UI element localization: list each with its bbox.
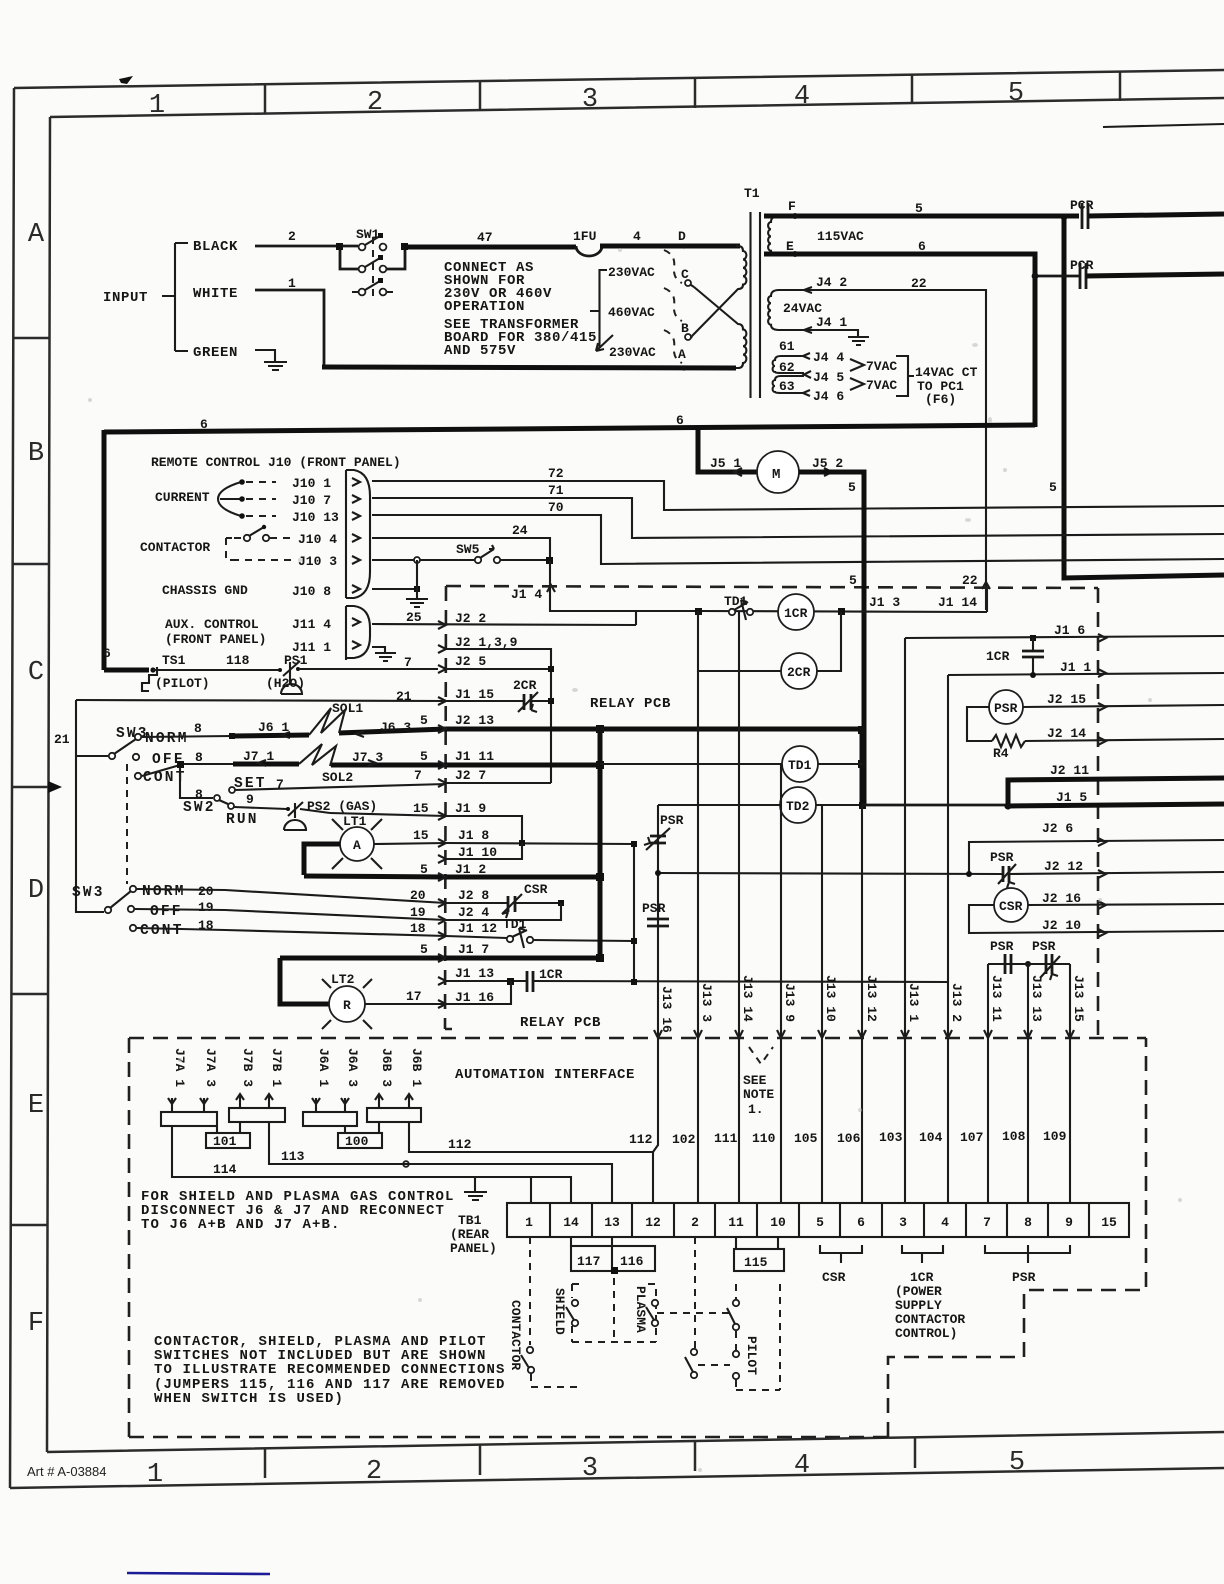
stray frame line top right bbox=[1103, 124, 1224, 127]
wire 5 115VAC F (heavy) bbox=[764, 214, 1079, 219]
svg-text:INPUT: INPUT bbox=[103, 290, 148, 306]
jumper 100 box bbox=[338, 1133, 382, 1148]
svg-text:J2 11: J2 11 bbox=[1050, 763, 1089, 778]
svg-text:CSR: CSR bbox=[524, 882, 548, 897]
svg-text:230VAC: 230VAC bbox=[609, 345, 656, 360]
svg-text:15: 15 bbox=[413, 801, 429, 816]
wire 7 PS1 to J2 5 bbox=[300, 668, 438, 670]
svg-text:4: 4 bbox=[794, 82, 810, 112]
switch PILOT upper bbox=[733, 1300, 739, 1306]
pilot dashed drop from terminal 2 bbox=[694, 1237, 696, 1348]
svg-text:5: 5 bbox=[848, 480, 856, 495]
svg-text:J1 14: J1 14 bbox=[938, 595, 977, 610]
svg-text:7: 7 bbox=[404, 655, 412, 670]
bottom band tick 1-2 bbox=[264, 1449, 267, 1478]
chassis vertical bbox=[416, 560, 418, 598]
wire 112 bbox=[409, 1122, 653, 1203]
svg-text:J7B 3: J7B 3 bbox=[240, 1048, 255, 1087]
current selector arc bbox=[218, 482, 241, 516]
wire 72 (J10 1) bbox=[372, 481, 1224, 510]
svg-text:18: 18 bbox=[410, 921, 426, 936]
svg-text:PLASMA: PLASMA bbox=[633, 1286, 648, 1333]
svg-text:62: 62 bbox=[779, 360, 795, 375]
wire J1 11 row extension to TD1 bbox=[600, 763, 783, 765]
svg-text:F: F bbox=[28, 1309, 44, 1339]
top band tick 5-6 bbox=[1119, 72, 1122, 101]
arrow J4 2 bbox=[804, 287, 812, 293]
column J13 16 bbox=[657, 805, 659, 1037]
wire 71 (J10 7) bbox=[372, 498, 1224, 538]
chevron 7VAC lower bbox=[850, 378, 864, 390]
svg-text:70: 70 bbox=[548, 500, 564, 515]
ground symbol (J4 1) bbox=[848, 337, 869, 345]
svg-text:2: 2 bbox=[691, 1215, 699, 1230]
svg-text:J2 12: J2 12 bbox=[1044, 859, 1083, 874]
secondary 7VAC coil bbox=[773, 356, 804, 393]
svg-text:21: 21 bbox=[54, 732, 70, 747]
svg-text:7: 7 bbox=[414, 768, 422, 783]
svg-text:7VAC: 7VAC bbox=[866, 378, 897, 393]
svg-text:CHASSIS GND: CHASSIS GND bbox=[162, 583, 248, 598]
svg-text:TD1: TD1 bbox=[788, 758, 812, 773]
svg-text:J6B 3: J6B 3 bbox=[379, 1048, 394, 1087]
wire 47 SW1 to fuse bbox=[405, 245, 576, 250]
contactor switch dashed box bbox=[226, 538, 232, 560]
svg-text:J4 1: J4 1 bbox=[816, 315, 847, 330]
svg-text:460VAC: 460VAC bbox=[608, 305, 655, 320]
svg-text:(H2O): (H2O) bbox=[266, 676, 305, 691]
dashed tap braces bbox=[664, 250, 682, 363]
svg-text:6: 6 bbox=[857, 1215, 865, 1230]
svg-text:J1 5: J1 5 bbox=[1056, 790, 1087, 805]
top band tick 2-3 bbox=[479, 82, 482, 111]
svg-text:C: C bbox=[28, 658, 44, 688]
see note dashed V bbox=[749, 1047, 773, 1064]
terminal strip TB1 bbox=[507, 1203, 1129, 1237]
svg-text:J2 15: J2 15 bbox=[1047, 692, 1086, 707]
wire 17 LT2 to J1 16 bbox=[365, 1003, 446, 1005]
svg-text:OPERATION: OPERATION bbox=[444, 299, 525, 315]
svg-text:71: 71 bbox=[548, 483, 564, 498]
svg-text:F: F bbox=[788, 199, 796, 214]
svg-text:PSR: PSR bbox=[660, 813, 684, 828]
svg-text:RELAY PCB: RELAY PCB bbox=[590, 696, 671, 712]
connector J11 shell bbox=[346, 606, 370, 660]
junction chassis bbox=[414, 557, 420, 563]
vertical x634 net bbox=[633, 844, 635, 982]
svg-text:110: 110 bbox=[752, 1131, 776, 1146]
wire J10 3 to SW5 bbox=[372, 559, 474, 561]
svg-text:J1 10: J1 10 bbox=[458, 845, 497, 860]
svg-text:J4 4: J4 4 bbox=[813, 350, 844, 365]
J2 2 riser to 24 row bbox=[635, 611, 637, 625]
svg-text:114: 114 bbox=[213, 1162, 237, 1177]
svg-text:J6 1: J6 1 bbox=[258, 720, 289, 735]
svg-text:7VAC: 7VAC bbox=[866, 359, 897, 374]
svg-text:TO ILLUSTRATE RECOMMENDED CONN: TO ILLUSTRATE RECOMMENDED CONNECTIONS bbox=[154, 1362, 506, 1378]
svg-text:PILOT: PILOT bbox=[744, 1336, 759, 1375]
svg-text:5: 5 bbox=[420, 749, 428, 764]
fuse 1FU bbox=[576, 246, 602, 256]
svg-text:5: 5 bbox=[1008, 79, 1024, 109]
svg-text:AUTOMATION INTERFACE: AUTOMATION INTERFACE bbox=[455, 1067, 635, 1083]
svg-text:2CR: 2CR bbox=[787, 665, 811, 680]
svg-text:J4 6: J4 6 bbox=[813, 389, 844, 404]
svg-text:115: 115 bbox=[744, 1255, 768, 1270]
svg-text:J13 3: J13 3 bbox=[699, 983, 714, 1022]
psr pair bus bbox=[988, 963, 1070, 965]
svg-text:SW2: SW2 bbox=[183, 800, 216, 816]
svg-text:J2 1,3,9: J2 1,3,9 bbox=[455, 635, 518, 650]
wire J4 2 / 22 bbox=[788, 290, 986, 610]
bottom band tick 3-4 bbox=[694, 1442, 697, 1471]
connector J7B box bbox=[229, 1108, 285, 1122]
jumper 115 box bbox=[734, 1249, 784, 1271]
vertical 2CR drop x698 bbox=[698, 611, 781, 671]
switch SW1 pole 2 bbox=[359, 266, 366, 273]
svg-text:108: 108 bbox=[1002, 1129, 1026, 1144]
svg-text:REMOTE CONTROL J10 (FRONT PANE: REMOTE CONTROL J10 (FRONT PANEL) bbox=[151, 455, 401, 470]
svg-text:J4 2: J4 2 bbox=[816, 275, 847, 290]
wire J1 4 entry vertical bbox=[549, 561, 551, 612]
svg-text:J1 12: J1 12 bbox=[458, 921, 497, 936]
blue underline mark at page bottom bbox=[127, 1573, 270, 1574]
jumper 117/116 box bbox=[571, 1246, 655, 1271]
svg-text:J10 8: J10 8 bbox=[292, 584, 331, 599]
svg-text:112: 112 bbox=[629, 1132, 653, 1147]
svg-text:J10 4: J10 4 bbox=[298, 532, 337, 547]
svg-text:SOL1: SOL1 bbox=[332, 701, 363, 716]
svg-text:24VAC: 24VAC bbox=[783, 301, 822, 316]
bracket 1CR under 3-4 bbox=[902, 1245, 943, 1263]
svg-text:J7A 3: J7A 3 bbox=[203, 1048, 218, 1087]
TD2 right wire bbox=[816, 804, 862, 806]
svg-text:4: 4 bbox=[941, 1215, 949, 1230]
svg-text:(PILOT): (PILOT) bbox=[155, 676, 210, 691]
ground to terminal 1 bbox=[475, 1177, 531, 1203]
svg-text:SW3: SW3 bbox=[116, 726, 149, 742]
ground symbol (J11 1) bbox=[375, 653, 396, 661]
svg-text:J10 13: J10 13 bbox=[292, 510, 339, 525]
svg-text:12: 12 bbox=[645, 1215, 661, 1230]
svg-text:A: A bbox=[28, 220, 45, 250]
svg-text:J1 13: J1 13 bbox=[455, 966, 494, 981]
arrow into J1 4 bbox=[547, 585, 555, 592]
svg-text:6: 6 bbox=[676, 413, 684, 428]
svg-text:J13 11: J13 11 bbox=[989, 975, 1004, 1022]
svg-text:J7 3: J7 3 bbox=[352, 750, 383, 765]
column J13 9 bbox=[780, 764, 782, 1037]
wire SW5 to junction bbox=[500, 559, 550, 561]
svg-text:J2 2: J2 2 bbox=[455, 611, 486, 626]
svg-text:(FRONT PANEL): (FRONT PANEL) bbox=[165, 632, 266, 647]
svg-text:6: 6 bbox=[918, 239, 926, 254]
svg-text:9: 9 bbox=[1065, 1215, 1073, 1230]
svg-text:8: 8 bbox=[195, 750, 203, 765]
svg-text:J13 9: J13 9 bbox=[782, 983, 797, 1022]
svg-text:WHEN SWITCH IS USED): WHEN SWITCH IS USED) bbox=[154, 1391, 344, 1407]
svg-text:(F6): (F6) bbox=[925, 392, 956, 407]
svg-text:J1 3: J1 3 bbox=[869, 595, 900, 610]
svg-text:J2 4: J2 4 bbox=[458, 905, 489, 920]
secondary 115VAC coil bbox=[768, 216, 796, 255]
motor M bbox=[757, 451, 799, 493]
svg-text:J13 16: J13 16 bbox=[659, 986, 674, 1033]
svg-text:111: 111 bbox=[714, 1131, 738, 1146]
svg-text:CONTACTOR: CONTACTOR bbox=[895, 1312, 965, 1327]
relay coil TD2 bbox=[780, 787, 816, 823]
svg-text:CONTACTOR: CONTACTOR bbox=[140, 540, 210, 555]
column J13 3 bbox=[697, 671, 699, 1037]
connector J6B box bbox=[367, 1108, 421, 1122]
svg-text:3: 3 bbox=[899, 1215, 907, 1230]
svg-text:PSR: PSR bbox=[1032, 939, 1056, 954]
svg-text:TO J6 A+B AND J7 A+B.: TO J6 A+B AND J7 A+B. bbox=[141, 1217, 341, 1233]
svg-text:14VAC CT: 14VAC CT bbox=[915, 365, 978, 380]
chevron 7VAC upper bbox=[850, 359, 864, 371]
heavy J1 7 row right of boundary bbox=[446, 956, 600, 961]
svg-text:AND 575V: AND 575V bbox=[444, 343, 516, 359]
plasma link dashes bbox=[657, 1312, 730, 1314]
svg-text:LT2: LT2 bbox=[331, 972, 355, 987]
svg-text:RUN: RUN bbox=[226, 812, 259, 828]
wire 1 heavy run to transformer A bbox=[322, 367, 736, 368]
svg-text:J6A 3: J6A 3 bbox=[345, 1048, 360, 1087]
contact PSR right leg bbox=[1046, 954, 1052, 974]
svg-text:1CR: 1CR bbox=[539, 967, 563, 982]
left band tick C-D (none) tick D-E bbox=[12, 993, 49, 996]
CSR loop to J2 10 bbox=[969, 905, 1224, 933]
svg-text:SEE: SEE bbox=[743, 1073, 767, 1088]
wire 4 fuse to T1 primary D bbox=[600, 244, 740, 249]
svg-text:118: 118 bbox=[226, 653, 250, 668]
bracket PSR under 7-9 bbox=[985, 1245, 1070, 1263]
wire J10 8 chassis gnd bbox=[372, 588, 417, 590]
svg-text:6: 6 bbox=[103, 646, 111, 661]
svg-text:103: 103 bbox=[879, 1130, 903, 1145]
svg-text:107: 107 bbox=[960, 1130, 983, 1145]
svg-text:J6 3: J6 3 bbox=[380, 720, 411, 735]
svg-text:J2 10: J2 10 bbox=[1042, 918, 1081, 933]
svg-text:101: 101 bbox=[213, 1134, 237, 1149]
wire 24 inside pcb to 2CR drop bbox=[550, 610, 698, 612]
column J13 1 bbox=[904, 638, 906, 1037]
svg-text:1CR: 1CR bbox=[910, 1270, 934, 1285]
svg-text:SUPPLY: SUPPLY bbox=[895, 1298, 942, 1313]
svg-text:J2 13: J2 13 bbox=[455, 713, 494, 728]
svg-text:8: 8 bbox=[1024, 1215, 1032, 1230]
svg-text:(POWER: (POWER bbox=[895, 1284, 942, 1299]
contactor dashes to J10 3 bbox=[232, 559, 296, 561]
shield/plasma dashed boxes bbox=[572, 1278, 656, 1342]
switch CONTACTOR bbox=[527, 1347, 533, 1353]
relay pcb left dashed bbox=[445, 586, 452, 1029]
connector J6A box bbox=[303, 1112, 357, 1126]
svg-text:5: 5 bbox=[420, 942, 428, 957]
svg-text:24: 24 bbox=[512, 523, 528, 538]
svg-text:CONTACTOR: CONTACTOR bbox=[508, 1300, 523, 1370]
tap bracket bbox=[590, 270, 607, 348]
TD2 left wire to J13 16 column bbox=[658, 804, 780, 806]
terminal feed wires bbox=[653, 1038, 1070, 1203]
bottom band tick 2-3 bbox=[479, 1445, 482, 1475]
heavy link LT2 to J1 7 bbox=[280, 958, 329, 1004]
svg-text:PCR: PCR bbox=[1070, 258, 1094, 273]
svg-text:1CR: 1CR bbox=[784, 606, 808, 621]
left band tick A-B bbox=[13, 337, 50, 340]
svg-text:PSR: PSR bbox=[990, 939, 1014, 954]
wire 114 bbox=[172, 1126, 571, 1203]
svg-text:J13 2: J13 2 bbox=[949, 983, 964, 1022]
svg-text:4: 4 bbox=[633, 229, 641, 244]
svg-text:5: 5 bbox=[420, 713, 428, 728]
PSR loop to R4 bbox=[967, 707, 992, 741]
row J2 2: wire 25 bbox=[372, 624, 636, 625]
relay coil PSR bbox=[989, 690, 1023, 724]
svg-text:20: 20 bbox=[198, 884, 214, 899]
bracket 14VAC bbox=[896, 356, 914, 396]
svg-text:13: 13 bbox=[604, 1215, 620, 1230]
current dots and dashes J10 13 bbox=[239, 513, 245, 519]
ground symbol (input green) bbox=[264, 362, 287, 370]
relay coil 2CR bbox=[781, 653, 817, 689]
svg-text:5: 5 bbox=[1049, 480, 1057, 495]
svg-text:100: 100 bbox=[345, 1134, 369, 1149]
relay pcb top dashed bbox=[446, 586, 1098, 588]
svg-text:22: 22 bbox=[911, 276, 927, 291]
svg-text:5: 5 bbox=[915, 201, 923, 216]
svg-text:E: E bbox=[28, 1091, 44, 1121]
svg-text:2: 2 bbox=[366, 1457, 382, 1487]
svg-text:PSR: PSR bbox=[990, 850, 1014, 865]
left band tick E-F bbox=[11, 1224, 48, 1227]
svg-text:J7A 1: J7A 1 bbox=[172, 1048, 187, 1087]
ground symbol (chassis) bbox=[406, 599, 428, 607]
heavy TD bus x862 bbox=[860, 729, 865, 806]
relay coil 1CR bbox=[778, 594, 814, 630]
connector J7A box bbox=[161, 1112, 217, 1126]
top band tick 4-5 bbox=[911, 75, 914, 104]
svg-text:18: 18 bbox=[198, 918, 214, 933]
svg-text:J2 14: J2 14 bbox=[1047, 726, 1086, 741]
svg-text:4: 4 bbox=[794, 1451, 810, 1481]
secondary 24VAC coil bbox=[768, 290, 790, 330]
relay coil TD1 bbox=[782, 746, 818, 782]
svg-text:B: B bbox=[28, 439, 44, 469]
jumper 101 box bbox=[206, 1133, 250, 1148]
svg-text:AUX. CONTROL: AUX. CONTROL bbox=[165, 617, 259, 632]
svg-text:J1 6: J1 6 bbox=[1054, 623, 1085, 638]
svg-text:SW5: SW5 bbox=[456, 542, 480, 557]
svg-text:A: A bbox=[353, 838, 361, 853]
svg-text:J6A 1: J6A 1 bbox=[316, 1048, 331, 1087]
automation box top dashed bbox=[129, 1037, 1146, 1040]
junction at SW1 left bbox=[336, 243, 343, 250]
svg-text:T1: T1 bbox=[744, 186, 760, 201]
svg-text:61: 61 bbox=[779, 339, 795, 354]
svg-text:6: 6 bbox=[200, 417, 208, 432]
svg-text:NOTE: NOTE bbox=[743, 1087, 774, 1102]
heavy link LT1 to J1 2 bbox=[304, 844, 340, 875]
svg-text:PSR: PSR bbox=[642, 901, 666, 916]
wire J4 1 bbox=[788, 330, 858, 336]
svg-text:SW3: SW3 bbox=[72, 885, 105, 901]
wire 113 bbox=[269, 1122, 612, 1203]
svg-text:(REAR: (REAR bbox=[450, 1227, 489, 1242]
junction J2 12 takeoff bbox=[655, 870, 661, 876]
svg-text:J1 7: J1 7 bbox=[458, 942, 489, 957]
switch SW1 pole 3 (spare) bbox=[359, 289, 366, 296]
svg-text:47: 47 bbox=[477, 230, 493, 245]
junction at SW1 right bbox=[401, 243, 408, 250]
svg-text:J6B 1: J6B 1 bbox=[409, 1048, 424, 1087]
svg-text:1: 1 bbox=[525, 1215, 533, 1230]
junction 2CR riser bbox=[838, 608, 845, 615]
svg-text:5: 5 bbox=[849, 573, 857, 588]
svg-text:GREEN: GREEN bbox=[193, 345, 238, 361]
svg-text:SW1: SW1 bbox=[356, 227, 380, 242]
wire GREEN stub bbox=[255, 350, 275, 362]
svg-text:J13 15: J13 15 bbox=[1071, 975, 1086, 1022]
svg-text:NORM: NORM bbox=[145, 731, 189, 747]
svg-text:106: 106 bbox=[837, 1131, 861, 1146]
contactor switch contacts bbox=[244, 535, 250, 541]
svg-text:TS1: TS1 bbox=[162, 653, 186, 668]
svg-text:A: A bbox=[678, 347, 686, 362]
svg-text:230VAC: 230VAC bbox=[608, 265, 655, 280]
svg-text:RELAY PCB: RELAY PCB bbox=[520, 1015, 601, 1031]
svg-text:1: 1 bbox=[288, 276, 296, 291]
automation box bottom dashed bbox=[129, 1436, 888, 1439]
switch SW1 pole 1 bbox=[359, 244, 366, 251]
primary coil bbox=[692, 246, 746, 368]
svg-text:113: 113 bbox=[281, 1149, 305, 1164]
down arrows at automation boundary bbox=[654, 1030, 1074, 1038]
svg-text:2: 2 bbox=[288, 229, 296, 244]
wire 2 BLACK to SW1 bbox=[255, 245, 358, 248]
wire 6 bus heavy bbox=[104, 425, 1035, 432]
current dots and dashes J10 7 bbox=[239, 496, 245, 502]
svg-text:J13 12: J13 12 bbox=[864, 975, 879, 1022]
svg-text:TB1: TB1 bbox=[458, 1213, 482, 1228]
svg-text:J2 8: J2 8 bbox=[458, 888, 489, 903]
svg-text:J13 10: J13 10 bbox=[823, 975, 838, 1022]
wire 24 (J10 4) bbox=[372, 538, 550, 561]
svg-text:J1 16: J1 16 bbox=[455, 990, 494, 1005]
wire 8 CONT to SW2 bbox=[142, 765, 213, 798]
svg-text:J1 11: J1 11 bbox=[455, 749, 494, 764]
wire 6 115VAC E (heavy) bbox=[764, 254, 1035, 427]
svg-text:5: 5 bbox=[816, 1215, 824, 1230]
svg-text:SOL2: SOL2 bbox=[322, 770, 353, 785]
switch PILOT lower pair bbox=[691, 1349, 697, 1355]
remote box left heavy vertical bbox=[102, 430, 107, 670]
svg-text:19: 19 bbox=[198, 900, 214, 915]
svg-text:J2 5: J2 5 bbox=[455, 654, 486, 669]
wire 70 (J10 13) bbox=[372, 515, 1224, 564]
svg-text:10: 10 bbox=[770, 1215, 786, 1230]
capacitor PSR left leg bbox=[1005, 954, 1011, 974]
wire 118 bbox=[153, 669, 279, 671]
svg-text:J2 7: J2 7 bbox=[455, 768, 486, 783]
svg-text:J1 4: J1 4 bbox=[511, 587, 542, 602]
svg-text:SHIELD: SHIELD bbox=[552, 1288, 567, 1335]
J10 pin chevrons bbox=[352, 478, 360, 593]
svg-text:J13 1: J13 1 bbox=[906, 983, 921, 1022]
svg-text:1FU: 1FU bbox=[573, 229, 596, 244]
svg-text:116: 116 bbox=[620, 1254, 644, 1269]
column J13 12 bbox=[861, 806, 863, 1037]
